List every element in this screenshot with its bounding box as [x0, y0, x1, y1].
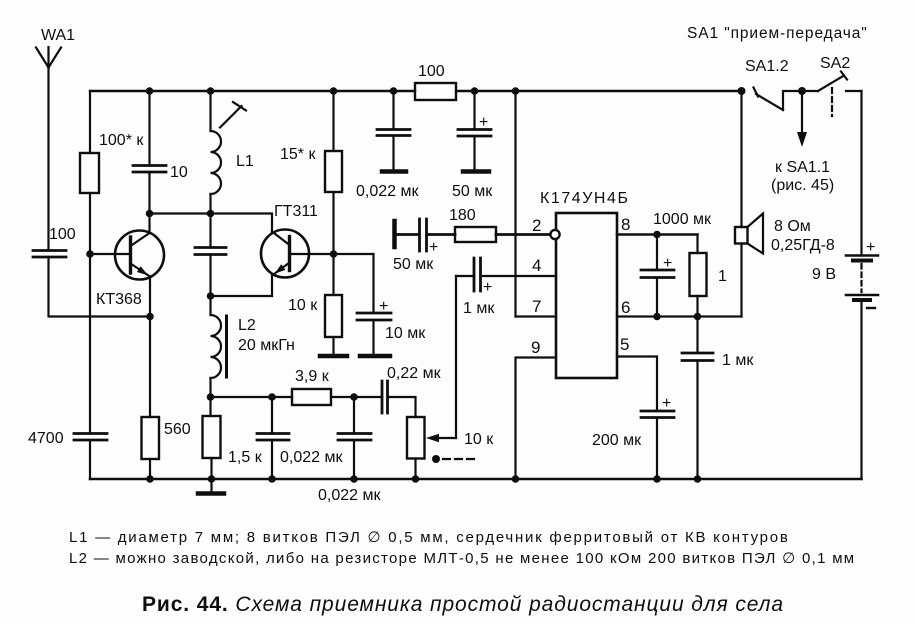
wire C10 to osc node	[148, 173, 150, 214]
capacitor 1 mk (left, polarized)	[474, 258, 481, 291]
svg-text:50 мк: 50 мк	[452, 183, 493, 200]
node: rail / C no.2	[350, 475, 358, 483]
wire 1mk right to rail	[696, 362, 698, 480]
svg-text:15* к: 15* к	[280, 146, 316, 163]
node: top rail / 15k column	[330, 87, 338, 95]
svg-text:10: 10	[170, 164, 188, 181]
node: top rail / speaker column / SA1.2	[738, 87, 746, 95]
resistor 100 (top, in rail)	[415, 83, 456, 100]
node: 0,022mk no.2 column	[350, 393, 358, 401]
svg-text:КТ368: КТ368	[96, 291, 142, 308]
capacitor 0,022 mk no.1	[257, 434, 289, 441]
wire C4700 to bottom rail corner	[89, 441, 91, 479]
wire top rail right segment	[456, 90, 742, 92]
capacitor 1 mk (right)	[682, 353, 713, 361]
arrow to SA1.1	[797, 91, 807, 147]
svg-text:ГТ311: ГТ311	[274, 203, 318, 220]
capacitor 200 mk (polarized)	[641, 411, 674, 418]
wire 3.9k line from L2 node	[211, 396, 293, 398]
capacitor 100 (antenna coupling)	[33, 251, 66, 258]
capacitor 50 mk (top, polarized)	[458, 130, 491, 137]
wire C(100) to emitter row	[49, 258, 151, 317]
node: L1 bottom / osc line	[207, 210, 215, 218]
svg-text:7: 7	[532, 297, 541, 316]
wire pin 5 to 200mk	[617, 357, 657, 411]
resistor 560	[142, 417, 160, 459]
svg-text:0,022 мк: 0,022 мк	[356, 183, 419, 200]
wire C to R180	[428, 233, 455, 236]
wire 1000mk top	[656, 235, 658, 270]
wire L1 to osc node	[209, 194, 211, 214]
wire GT311 base to node	[291, 253, 334, 255]
svg-text:10 к: 10 к	[288, 297, 318, 314]
svg-text:SA1.2: SA1.2	[745, 58, 789, 75]
transistor KT368	[115, 231, 164, 280]
terminal bar (input from detector)	[392, 221, 397, 247]
svg-text:0,022 мк: 0,022 мк	[318, 487, 381, 504]
wire emitter node down to R560	[149, 317, 151, 418]
wire GT311 emitter down and left	[271, 275, 273, 297]
wire 200mk to rail	[656, 419, 658, 480]
svg-text:(рис. 45): (рис. 45)	[771, 177, 834, 194]
wire L2 top stub	[209, 296, 211, 315]
svg-text:К174УН4Б: К174УН4Б	[540, 190, 630, 207]
svg-text:0,22 мк: 0,22 мк	[387, 365, 442, 382]
wire C0.22 to potentiometer top	[389, 397, 416, 417]
svg-text:4: 4	[532, 256, 541, 275]
svg-text:5: 5	[620, 335, 629, 354]
resistor 3,9 k	[292, 389, 331, 405]
wire pin 7	[516, 315, 557, 317]
svg-text:10 к: 10 к	[464, 431, 494, 448]
node: top rail / 0,022 top column	[390, 87, 398, 95]
node: R560 bottom rail	[146, 475, 154, 483]
node: rail / pin9 ground	[512, 475, 520, 483]
op-amp IC K174UN4B box	[556, 213, 617, 378]
wire R15k to base node	[332, 192, 334, 254]
wire R180 to pin 2	[496, 233, 549, 236]
wire osc line (collector feedback) to GT311 collector	[150, 214, 273, 232]
wire pot bottom to rail	[414, 459, 416, 480]
inductor L1	[211, 102, 247, 194]
svg-text:+: +	[379, 298, 388, 315]
wire pin 8 corner down to R1	[696, 235, 698, 254]
resistor 10 k	[325, 295, 342, 337]
svg-text:4700: 4700	[28, 430, 64, 447]
node: top rail / C10 column	[146, 87, 154, 95]
capacitor 50 mk (series, polarized)	[420, 219, 427, 251]
antenna WA1	[36, 47, 61, 68]
capacitor 4700	[74, 434, 107, 441]
wire rail to R15k	[332, 91, 334, 151]
node: top rail / 50mk column	[471, 87, 479, 95]
svg-text:3,9 к: 3,9 к	[295, 368, 330, 385]
node: L2 bottom / 3.9k line	[207, 393, 215, 401]
wire cap down to emitter line node	[209, 256, 211, 297]
switch SA1.2	[754, 88, 819, 111]
node: rail / pot	[412, 475, 420, 483]
svg-text:+: +	[663, 255, 672, 272]
svg-text:1 мк: 1 мк	[722, 352, 754, 369]
wire C to ground bar	[392, 137, 394, 171]
wire pin 8	[617, 233, 698, 236]
svg-text:20 мкГн: 20 мкГн	[238, 337, 295, 354]
capacitor 1000 mk (polarized)	[641, 270, 674, 278]
node: GT311 base / 15k / 10k	[330, 250, 338, 258]
svg-text:0,25ГД-8: 0,25ГД-8	[771, 237, 835, 254]
svg-text:1: 1	[718, 268, 727, 285]
svg-text:L1: L1	[236, 153, 254, 170]
wire rail corner down to R(100k)	[89, 91, 91, 153]
svg-text:8: 8	[621, 215, 630, 234]
capacitor 10 mk (polarized)	[357, 313, 391, 320]
wire 1mk right top	[696, 317, 698, 353]
node: GT311 emitter line / L2 top	[207, 292, 215, 300]
wire down to speaker	[740, 91, 742, 227]
wire R(100k) down through base node to C4700	[89, 193, 91, 433]
node: SA1.2 / SA2 / arrow	[798, 87, 806, 95]
mechanical link (dot and dashes)	[432, 455, 475, 463]
svg-text:8 Ом: 8 Ом	[774, 218, 811, 235]
wire rail to C50mk	[473, 91, 475, 129]
resistor R 100*k	[80, 153, 99, 193]
wire antenna down to C(100)	[47, 68, 49, 250]
node: rail / 200mk	[653, 475, 661, 483]
svg-text:L2 — можно заводской, либо на: L2 — можно заводской, либо на резисторе …	[69, 550, 855, 567]
ground (chassis bar under 50mk)	[463, 169, 489, 174]
svg-text:6: 6	[621, 298, 630, 317]
wire down to C 0,022 no.1	[271, 397, 273, 433]
ground (main, below rail)	[198, 479, 224, 494]
wire rail to C0,022 top	[392, 91, 394, 129]
wire supply line down to pin 7 corner	[514, 91, 516, 317]
svg-text:1,5 к: 1,5 к	[228, 449, 263, 466]
svg-text:100: 100	[418, 63, 445, 80]
wire top rail left segment	[90, 90, 415, 92]
svg-text:10 мк: 10 мк	[385, 325, 426, 342]
node: top rail / IC supply column	[512, 87, 520, 95]
wire pin 4 with 1mk cap branch	[483, 275, 556, 277]
wire C no.2 to bottom rail	[353, 441, 355, 479]
svg-text:2: 2	[532, 216, 541, 235]
node: rail / 1mk right	[694, 475, 702, 483]
node: emitter / antenna cap junction	[146, 313, 154, 321]
svg-text:180: 180	[449, 207, 476, 224]
wire SA2 to battery	[860, 91, 862, 254]
svg-text:50 мк: 50 мк	[393, 256, 434, 273]
wire base node down to R10k	[332, 254, 334, 295]
capacitor 10	[133, 166, 166, 173]
svg-text:WA1: WA1	[41, 27, 75, 44]
node: pin8 / 1000mk	[653, 231, 661, 239]
svg-text:+: +	[662, 395, 671, 412]
resistor 15* k	[325, 151, 342, 192]
ground (chassis bar under 0,022 top)	[382, 169, 406, 174]
wire 1000mk bottom to pin6 line	[656, 279, 658, 317]
svg-text:L2: L2	[238, 317, 256, 334]
capacitor 0,022 mk (top)	[377, 130, 410, 136]
wire rail to L1	[209, 91, 211, 131]
wire emitter line	[211, 295, 273, 297]
wire C10mk to ground bar	[372, 321, 374, 354]
label - (battery)	[867, 307, 875, 309]
wire R1 bottom to pin6 line	[696, 296, 698, 317]
resistor 1,5 k	[203, 416, 221, 458]
wire C to ground bar	[473, 137, 475, 170]
wire 1mk left plate to wiper column	[456, 275, 474, 277]
svg-text:9 В: 9 В	[812, 266, 836, 283]
node: C10 / KT368 collector / osc line	[146, 210, 154, 218]
wire R3.9k to C0.22	[331, 396, 381, 398]
svg-text:к SA1.1: к SA1.1	[775, 159, 830, 176]
capacitor (unlabeled, tank)	[195, 248, 226, 255]
resistor 180	[455, 227, 496, 242]
wire pin 9 to ground rail	[516, 358, 557, 480]
speaker BA 8 Om 0,25GD-8	[735, 214, 763, 254]
node: R1.5k bottom rail	[208, 475, 216, 483]
svg-text:1000 мк: 1000 мк	[653, 211, 712, 228]
capacitor 0,22 mk (series)	[382, 381, 388, 413]
svg-text:+: +	[429, 239, 438, 256]
wire R10k to ground bar	[332, 337, 334, 354]
inductor L2	[211, 315, 227, 378]
node: top rail / L1 column	[207, 87, 215, 95]
svg-text:SA2: SA2	[820, 55, 850, 72]
capacitor 0,022 mk no.2	[338, 434, 371, 441]
wire base of KT368	[90, 253, 129, 255]
wire R1.5k to bottom rail	[210, 458, 212, 479]
wire R560 to bottom rail	[149, 459, 151, 479]
svg-text:L1 — диаметр 7 мм; 8 витков ПЭ: L1 — диаметр 7 мм; 8 витков ПЭЛ ∅ 0,5 мм…	[69, 529, 790, 546]
ground (chassis bar under 10mk)	[360, 354, 390, 359]
wire L2 bottom to 3.9k line	[209, 378, 211, 397]
wire L2 node down to R1.5k	[209, 397, 211, 416]
pin 2 circle	[550, 230, 559, 239]
svg-text:0,022 мк: 0,022 мк	[280, 449, 343, 466]
wire KT368 emitter down	[149, 277, 151, 317]
wire KT368 collector	[148, 214, 150, 234]
node: rail / C no.1	[268, 475, 276, 483]
svg-text:+: +	[866, 239, 875, 256]
wire battery to bottom rail	[860, 301, 862, 479]
svg-text:SA1 "прием-передача": SA1 "прием-передача"	[687, 25, 868, 42]
svg-text:9: 9	[531, 338, 540, 357]
wire speaker bottom to pin6 line	[740, 244, 742, 317]
switch SA2	[818, 72, 862, 117]
node: pin6 / R1 / 1mk right	[694, 313, 702, 321]
ground (chassis bar under 10k)	[320, 354, 347, 359]
svg-text:200 мк: 200 мк	[592, 432, 642, 449]
resistor 1	[690, 253, 707, 296]
node: pin6 / 1000mk	[653, 313, 661, 321]
svg-text:100* к: 100* к	[99, 132, 144, 149]
node: 0,022mk no.1 column	[268, 393, 276, 401]
wire rail to C10	[148, 91, 150, 165]
svg-text:560: 560	[164, 421, 191, 438]
wire down to C 0,022 no.2	[353, 397, 355, 433]
svg-text:+: +	[483, 279, 492, 296]
wire C no.1 to bottom rail	[271, 441, 273, 479]
transistor GT311 (mirrored)	[261, 230, 309, 278]
wire pin 6	[617, 315, 742, 317]
wire osc node down to cap	[209, 214, 211, 247]
node: KT368 base joins 100k line	[86, 250, 94, 258]
svg-text:1 мк: 1 мк	[463, 300, 495, 317]
svg-text:+: +	[479, 114, 488, 131]
wire base node right and down to C10mk	[334, 254, 374, 312]
svg-text:100: 100	[49, 226, 76, 243]
wire pot wiper feed from 1mk cap	[455, 276, 457, 438]
battery GB 9V	[846, 256, 878, 301]
svg-text:Рис. 44. Схема приемника прост: Рис. 44. Схема приемника простой радиост…	[142, 593, 784, 616]
wire bottom rail	[90, 478, 862, 481]
potentiometer 10 k	[407, 417, 456, 459]
wire terminal to C50mk series	[396, 233, 418, 236]
